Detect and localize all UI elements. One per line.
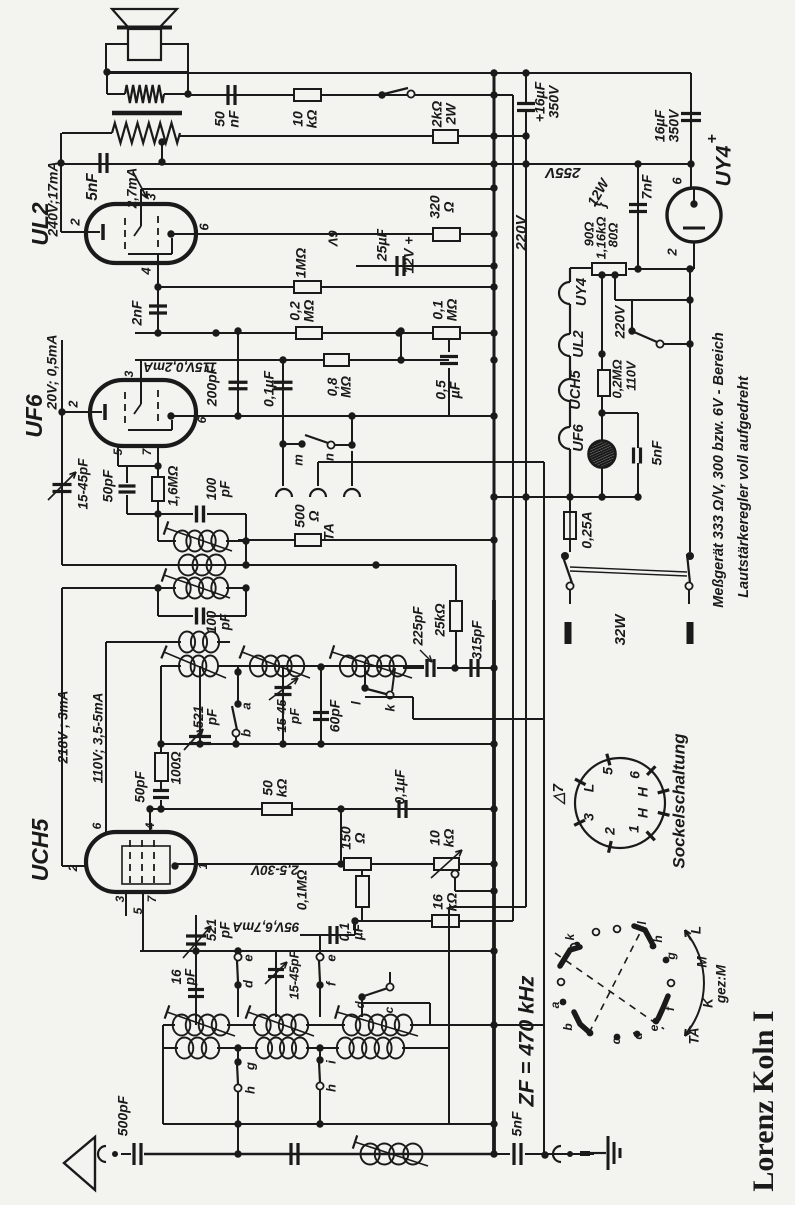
svg-text:5nF: 5nF bbox=[84, 173, 101, 201]
capacitor 0,1µF bbox=[282, 360, 284, 486]
UCH5 internals bbox=[122, 846, 170, 884]
left bus x62 upper bbox=[60, 133, 62, 232]
mains switch right bbox=[689, 544, 691, 552]
wire y565 AVC bbox=[62, 564, 456, 566]
svg-text:h: h bbox=[242, 1086, 257, 1094]
heater UY4 bbox=[569, 268, 571, 282]
osc wire y666 bbox=[218, 665, 424, 667]
capacitor 0,1µF osc bbox=[397, 800, 400, 818]
svg-text:15-45pF: 15-45pF bbox=[286, 949, 301, 999]
svg-text:0,2MΩ: 0,2MΩ bbox=[609, 359, 624, 398]
capacitor 0,5µF bbox=[448, 338, 450, 352]
svg-text:Ω: Ω bbox=[306, 510, 322, 522]
UF6 anode wire y416 bbox=[171, 415, 494, 417]
capacitor 5nF heater bbox=[602, 412, 638, 414]
svg-text:Meßgerät 333 Ω/V, 300 bzw. 6V: Meßgerät 333 Ω/V, 300 bzw. 6V - Bereich bbox=[711, 332, 727, 608]
svg-text:6: 6 bbox=[669, 177, 684, 185]
svg-text:kΩ: kΩ bbox=[274, 779, 290, 798]
trimmer 15-45pF ant bbox=[275, 951, 277, 1017]
svg-text:UCH5: UCH5 bbox=[27, 817, 53, 881]
svg-text:0,1µF: 0,1µF bbox=[261, 371, 277, 408]
capacitor 60pF bbox=[320, 667, 322, 744]
svg-text:pF: pF bbox=[287, 707, 302, 725]
svg-text:255V: 255V bbox=[543, 164, 581, 181]
svg-text:60pF: 60pF bbox=[327, 699, 343, 732]
loudspeaker bbox=[112, 9, 177, 27]
svg-text:g: g bbox=[242, 1062, 257, 1071]
svg-text:µF: µF bbox=[447, 381, 463, 399]
wire x690 down bbox=[689, 269, 691, 544]
svg-text:pF: pF bbox=[217, 613, 232, 631]
svg-text:110V; 3,5-5mA: 110V; 3,5-5mA bbox=[91, 693, 106, 784]
svg-text:3: 3 bbox=[581, 813, 597, 821]
wire y809 bbox=[150, 808, 494, 810]
capacitor ant series bbox=[289, 1143, 292, 1165]
resistor 0,1MΩ bbox=[433, 327, 460, 339]
svg-text:m: m bbox=[290, 454, 305, 466]
svg-text:b: b bbox=[561, 1023, 575, 1030]
wire speaker top bus y73 bbox=[107, 72, 691, 74]
TA jack hooks bbox=[276, 489, 292, 497]
UL2 grid cap arrow 2,7mA bbox=[133, 172, 147, 198]
osc coil 3 bbox=[340, 656, 357, 677]
UF6 grids dashed bbox=[124, 392, 126, 428]
wire y951 bbox=[140, 950, 494, 952]
svg-text:b: b bbox=[238, 729, 253, 737]
UL2 anode wire y234 bbox=[171, 233, 433, 235]
mains switch left bbox=[569, 539, 571, 552]
svg-text:MΩ: MΩ bbox=[301, 300, 317, 323]
svg-text:h: h bbox=[651, 935, 665, 942]
capacitor 50pF osc bbox=[160, 781, 162, 789]
svg-text:95V,6,7mA: 95V,6,7mA bbox=[232, 919, 299, 934]
wire 220V vertical x513 bbox=[512, 95, 514, 921]
capacitor 5nF bbox=[98, 153, 101, 173]
IF transformer 1 primary bbox=[158, 540, 176, 542]
UF6 pin3 wire bbox=[140, 360, 142, 380]
switch i-h bbox=[316, 1044, 323, 1051]
svg-text:6: 6 bbox=[90, 822, 104, 829]
svg-text:Lautstärkeregler voll aufgedr: Lautstärkeregler voll aufgedreht bbox=[736, 375, 752, 598]
osc feedback loop bbox=[364, 688, 366, 697]
trimmer 15-45pF osc bbox=[282, 668, 284, 744]
svg-text:0,1µF: 0,1µF bbox=[393, 769, 408, 805]
svg-text:c: c bbox=[609, 1037, 623, 1044]
svg-text:2,7mA: 2,7mA bbox=[125, 168, 140, 210]
svg-text:15-45pF: 15-45pF bbox=[76, 458, 91, 510]
resistor 50kΩ bbox=[262, 803, 292, 815]
svg-text:1: 1 bbox=[626, 825, 642, 833]
IFT1 secondary bbox=[179, 555, 198, 576]
resistor 0,2MΩ bbox=[296, 327, 322, 339]
svg-text:kΩ: kΩ bbox=[441, 829, 457, 848]
svg-text:kΩ: kΩ bbox=[444, 893, 460, 912]
svg-text:UY4: UY4 bbox=[574, 278, 590, 306]
svg-text:20V; 0,5mA: 20V; 0,5mA bbox=[44, 335, 60, 411]
capacitor 50nF bbox=[226, 85, 229, 105]
svg-text:UCH5: UCH5 bbox=[568, 369, 584, 409]
svg-text:Lorenz Koln I: Lorenz Koln I bbox=[747, 1010, 780, 1191]
svg-text:h: h bbox=[323, 1084, 338, 1092]
resistor 10kΩ bbox=[294, 89, 321, 101]
capacitor 50pF bbox=[126, 466, 128, 483]
svg-text:218V ; 3mA: 218V ; 3mA bbox=[56, 691, 71, 765]
svg-text:80Ω: 80Ω bbox=[605, 223, 620, 248]
svg-text:2: 2 bbox=[67, 218, 82, 227]
svg-text:d: d bbox=[240, 979, 255, 988]
resistor 0,8MΩ bbox=[324, 354, 349, 366]
svg-text:c: c bbox=[382, 1006, 396, 1013]
svg-text:△7: △7 bbox=[550, 783, 567, 806]
junction bbox=[234, 1150, 241, 1157]
osc tank left drop bbox=[160, 666, 162, 753]
svg-text:Sockelschaltung: Sockelschaltung bbox=[669, 733, 688, 869]
svg-text:32W: 32W bbox=[612, 613, 629, 646]
resistor 2kΩ 2W bbox=[433, 130, 458, 143]
capacitor 500pF bbox=[121, 1153, 131, 1155]
svg-text:5nF: 5nF bbox=[509, 1111, 525, 1136]
antenna jack bbox=[98, 1146, 106, 1162]
svg-text:M: M bbox=[695, 956, 710, 968]
svg-text:0,25A: 0,25A bbox=[579, 511, 595, 548]
switch e-f bbox=[319, 936, 321, 953]
mixer grid wire x106 bbox=[105, 642, 107, 832]
svg-text:5: 5 bbox=[600, 767, 616, 775]
svg-text:110V: 110V bbox=[623, 360, 638, 391]
svg-text:l: l bbox=[348, 701, 363, 705]
svg-text:n: n bbox=[321, 453, 336, 461]
svg-text:4: 4 bbox=[138, 267, 153, 276]
junction dots bbox=[490, 69, 497, 76]
capacitor 200pF bbox=[237, 331, 239, 416]
svg-text:TA: TA bbox=[687, 1028, 702, 1045]
svg-text:UY4: UY4 bbox=[713, 145, 736, 186]
resistor 320Ω bbox=[433, 228, 460, 241]
svg-text:pF: pF bbox=[217, 480, 232, 498]
output transformer primary (zigzag) bbox=[112, 123, 180, 143]
capacitor 7nF bbox=[637, 164, 639, 269]
resistor 1,6MΩ bbox=[152, 477, 164, 501]
UCH5 cathode bbox=[62, 865, 86, 867]
resistor 0,1MΩ UCH5 bbox=[361, 870, 363, 876]
svg-text:L: L bbox=[581, 784, 597, 793]
switch link bbox=[570, 567, 687, 572]
capacitor 16pF bbox=[188, 988, 204, 991]
fuse 0,25A bbox=[569, 497, 571, 512]
svg-text:d: d bbox=[353, 1001, 367, 1009]
svg-text:2W: 2W bbox=[443, 102, 459, 126]
UL2 pin4 wire down bbox=[157, 254, 159, 333]
wire y164 long rail bbox=[62, 163, 691, 165]
svg-text:d: d bbox=[631, 1032, 645, 1040]
coupling coil to mixer bbox=[106, 641, 181, 643]
switch m-n bbox=[279, 440, 286, 447]
svg-text:240V;17mA: 240V;17mA bbox=[45, 162, 61, 238]
osc coil 2 bbox=[250, 656, 267, 677]
switch d-c bbox=[358, 993, 365, 1000]
UF6 pin5/7 stub bbox=[117, 446, 119, 466]
svg-text:pF: pF bbox=[217, 921, 232, 939]
wire y744 cathode line bbox=[161, 743, 494, 745]
resistor 1MΩ bbox=[294, 281, 321, 293]
UCH5 anode wire y864 bbox=[175, 863, 494, 865]
capacitor 225pF bbox=[403, 667, 424, 669]
UL2 cathode bbox=[61, 231, 100, 233]
band switch wafer bbox=[555, 927, 664, 1033]
UCH5 pin4 wire bbox=[149, 809, 151, 832]
scale lamp bbox=[601, 275, 603, 371]
resistor 100Ω bbox=[155, 753, 168, 781]
svg-text:H: H bbox=[635, 786, 651, 797]
wire bbox=[164, 93, 188, 95]
antenna coil row 2 bbox=[163, 1047, 178, 1049]
left bus lower x62 bbox=[61, 588, 63, 866]
svg-text:MΩ: MΩ bbox=[338, 376, 353, 398]
wire bbox=[415, 94, 513, 96]
svg-text:e: e bbox=[240, 954, 255, 961]
switch a-b bbox=[237, 666, 239, 701]
junction bbox=[103, 68, 110, 75]
junctions bbox=[397, 356, 404, 363]
switch l-k bbox=[364, 667, 366, 685]
screen wire y360 bbox=[135, 359, 449, 361]
IF transformer 2 primary bbox=[62, 587, 176, 589]
svg-text:ZF = 470 kHz: ZF = 470 kHz bbox=[515, 975, 539, 1107]
capacitor 16µF 350V bbox=[681, 112, 701, 115]
svg-text:6: 6 bbox=[195, 416, 209, 423]
wire bbox=[62, 132, 112, 134]
svg-text:k: k bbox=[382, 704, 397, 712]
resistor 16kΩ bbox=[355, 920, 434, 922]
wire x691 to rectifier bbox=[690, 73, 692, 188]
svg-text:TA: TA bbox=[321, 523, 337, 541]
output transformer core bbox=[112, 111, 182, 116]
svg-text:6: 6 bbox=[627, 771, 643, 779]
svg-text:+: + bbox=[704, 134, 721, 143]
potentiometer 10kΩ bbox=[434, 858, 459, 870]
resistor 0,2MΩ 110V bbox=[598, 370, 610, 396]
svg-text:1,6MΩ: 1,6MΩ bbox=[166, 465, 181, 506]
capacitor 315pF bbox=[444, 667, 494, 669]
wire y333 screen bbox=[135, 332, 494, 334]
ground bbox=[607, 1136, 610, 1170]
svg-text:e: e bbox=[647, 1024, 661, 1031]
svg-text:g: g bbox=[664, 952, 678, 961]
svg-text:6V: 6V bbox=[326, 230, 341, 247]
svg-text:2,5-30V: 2,5-30V bbox=[250, 862, 299, 877]
heater chain wire bbox=[570, 267, 592, 269]
svg-text:pF: pF bbox=[204, 708, 219, 726]
svg-text:2: 2 bbox=[602, 827, 618, 836]
variable capacitor 521pF osc bbox=[199, 666, 201, 744]
svg-text:i: i bbox=[323, 1060, 338, 1064]
UL2 grid lead bbox=[140, 189, 142, 226]
heater return wire y497 bbox=[494, 496, 638, 498]
svg-text:500pF: 500pF bbox=[115, 1095, 131, 1136]
svg-text:1MΩ: 1MΩ bbox=[293, 248, 309, 278]
svg-text:2: 2 bbox=[664, 248, 679, 257]
svg-text:315pF: 315pF bbox=[470, 620, 485, 660]
resistor 150Ω bbox=[344, 858, 371, 870]
svg-text:350V: 350V bbox=[546, 84, 562, 118]
osc coil 1 bbox=[161, 665, 181, 667]
wire x544 vertical bbox=[543, 462, 545, 1154]
speaker damping resistor (zigzag) bbox=[125, 85, 164, 103]
svg-text:50pF: 50pF bbox=[100, 469, 116, 502]
svg-text:0,1MΩ: 0,1MΩ bbox=[295, 869, 310, 910]
transformer tap bbox=[158, 138, 165, 145]
antenna bbox=[64, 1137, 95, 1190]
cathode wire y951 bbox=[196, 950, 494, 952]
antenna coil row 1 bbox=[163, 1024, 175, 1026]
svg-text:2: 2 bbox=[66, 400, 80, 408]
resistor 90Ω/1,16kΩ/80Ω 12W bbox=[592, 263, 626, 275]
svg-text:3: 3 bbox=[143, 193, 158, 201]
svg-text:Ω: Ω bbox=[352, 832, 368, 844]
trimmer 15-45pF bbox=[53, 483, 72, 486]
left bus x62 lower bbox=[61, 340, 63, 565]
UF6 cathode bbox=[62, 411, 102, 413]
svg-text:UF6: UF6 bbox=[571, 423, 587, 451]
capacitor +16µF 350V bbox=[517, 102, 535, 105]
IFT2 100pF bottom loop bbox=[157, 588, 159, 616]
svg-text:12V +: 12V + bbox=[401, 237, 417, 274]
wire x526 vertical bbox=[525, 73, 527, 104]
svg-text:7nF: 7nF bbox=[639, 174, 655, 199]
wire y95 to volume switch bbox=[188, 94, 513, 96]
antenna coupling coil bbox=[361, 1144, 380, 1165]
svg-text:H: H bbox=[635, 807, 651, 818]
variable capacitor 521pF ant bbox=[195, 915, 197, 1025]
rectifier tube UY4 bbox=[667, 188, 721, 242]
svg-text:5nF: 5nF bbox=[649, 440, 665, 465]
wire y136 transformer B+ bbox=[180, 135, 526, 137]
svg-text:MΩ: MΩ bbox=[444, 299, 460, 322]
wire y1003 bbox=[362, 1002, 430, 1004]
UY4 cathode wire bbox=[693, 242, 695, 269]
svg-text:UL2: UL2 bbox=[571, 330, 587, 357]
capacitor 5nF bottom bbox=[494, 1153, 510, 1155]
wire grid y189 bbox=[141, 188, 494, 190]
wire y287 grid leak bbox=[158, 286, 494, 288]
svg-text:220V: 220V bbox=[612, 304, 628, 339]
svg-text:100Ω: 100Ω bbox=[169, 751, 184, 785]
wire row1 to bus bbox=[490, 1021, 497, 1028]
band frame bbox=[162, 1025, 164, 1124]
svg-text:e: e bbox=[323, 954, 338, 961]
capacitor 25µF electrolytic bbox=[356, 265, 494, 267]
svg-text:a: a bbox=[238, 702, 253, 709]
svg-text:225pF: 225pF bbox=[411, 606, 426, 647]
socket diagram Sockelschaltung bbox=[575, 758, 665, 848]
capacitor 0,1µF cathode bbox=[300, 934, 355, 936]
svg-text:6: 6 bbox=[196, 223, 211, 231]
IFT1 100pF top loop bbox=[127, 513, 193, 515]
switch g-h bbox=[234, 1044, 241, 1051]
resistor 25kΩ bbox=[455, 565, 457, 601]
svg-text:3: 3 bbox=[122, 370, 136, 377]
svg-text:pF: pF bbox=[182, 968, 197, 986]
UL2 grids (dashed) bbox=[124, 218, 126, 252]
resistor 500Ω bbox=[238, 539, 494, 541]
UCH5 bottom stubs bbox=[125, 892, 127, 916]
tube UCH5 envelope bbox=[86, 832, 196, 892]
svg-text:350V: 350V bbox=[666, 108, 682, 142]
wire y907 bbox=[449, 906, 526, 908]
wire y462 bbox=[318, 461, 544, 463]
svg-text:220V: 220V bbox=[513, 213, 530, 251]
svg-text:a: a bbox=[548, 1001, 562, 1008]
svg-text:2nF: 2nF bbox=[129, 300, 145, 326]
svg-text:200pF: 200pF bbox=[204, 365, 220, 407]
svg-text:nF: nF bbox=[226, 110, 242, 128]
UL2 anode structure bbox=[128, 253, 172, 255]
main HT bus x494 bbox=[493, 73, 496, 600]
bus bottom junctions bbox=[490, 1150, 497, 1157]
svg-text:25µF: 25µF bbox=[374, 228, 390, 262]
svg-text:kΩ: kΩ bbox=[304, 110, 320, 129]
switch (tone) bbox=[378, 91, 385, 98]
svg-text:gez:M: gez:M bbox=[714, 964, 729, 1004]
svg-text:Ω: Ω bbox=[441, 201, 457, 213]
svg-text:50pF: 50pF bbox=[133, 770, 148, 802]
chassis jack bbox=[553, 1146, 561, 1162]
tube UL2 envelope bbox=[86, 204, 196, 263]
svg-text:µF: µF bbox=[350, 923, 365, 941]
tube UF6 envelope bbox=[90, 380, 196, 446]
capacitor 2nF bbox=[149, 304, 167, 307]
svg-text:25kΩ: 25kΩ bbox=[433, 603, 448, 638]
UF6 grid lead bbox=[140, 380, 142, 404]
switch e-d bbox=[237, 951, 239, 953]
UF6 anode structure bbox=[128, 429, 172, 431]
svg-text:L: L bbox=[689, 926, 704, 934]
